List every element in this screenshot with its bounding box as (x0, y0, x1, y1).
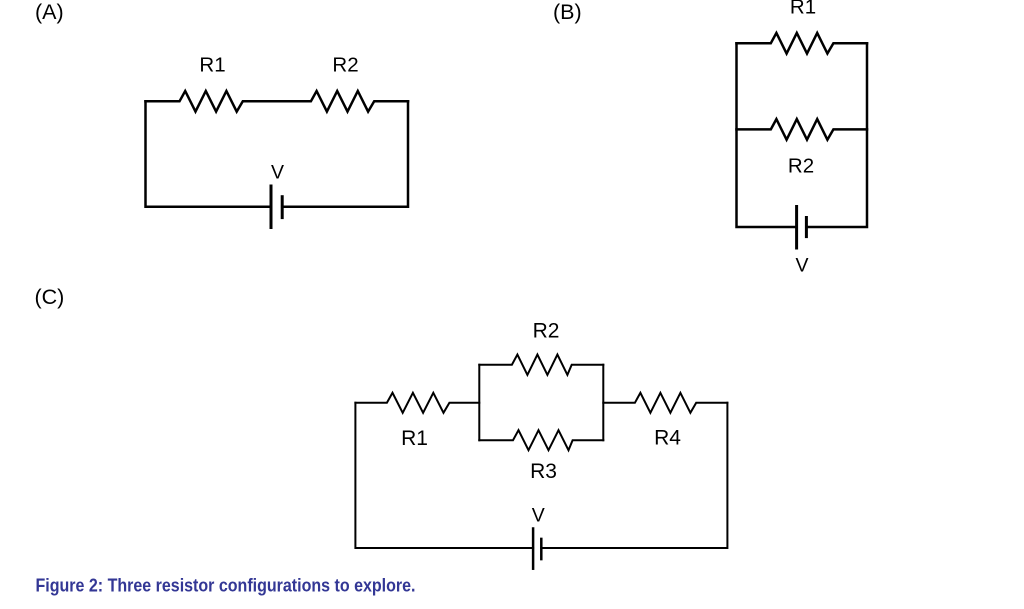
svg-text:R2: R2 (332, 54, 358, 77)
svg-text:(A): (A) (35, 0, 64, 24)
svg-text:R1: R1 (199, 54, 225, 77)
svg-text:R2: R2 (533, 320, 560, 343)
svg-text:Figure 2: Three resistor confi: Figure 2: Three resistor configurations … (36, 576, 416, 596)
svg-text:R1: R1 (401, 427, 428, 450)
svg-text:R4: R4 (654, 427, 681, 450)
svg-text:(B): (B) (553, 0, 582, 24)
svg-text:(C): (C) (35, 285, 65, 309)
svg-text:V: V (795, 255, 808, 277)
svg-text:V: V (271, 162, 284, 184)
svg-text:R2: R2 (788, 155, 814, 178)
svg-text:R3: R3 (530, 460, 557, 483)
svg-text:R1: R1 (790, 0, 816, 19)
svg-text:V: V (532, 505, 545, 527)
